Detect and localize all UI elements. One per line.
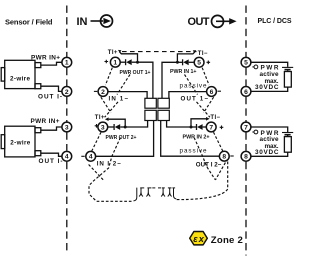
diode D2 (PWR OUT 2+) <box>108 124 126 130</box>
polarity - at pin 6 <box>218 90 221 92</box>
TI- test arrow (ch2 right) <box>191 117 210 127</box>
svg-text:4: 4 <box>89 154 93 161</box>
wire pin2 to transformer <box>108 92 147 99</box>
terminal 3 (field side) <box>62 122 72 132</box>
TI+ test arrow (ch1) <box>118 50 138 62</box>
device outline dashed diagonals (left) <box>89 68 132 202</box>
svg-text:2-wire: 2-wire <box>10 75 30 82</box>
terminal 5 (PLC side) <box>241 57 251 67</box>
pin 3 (device) <box>98 122 108 132</box>
polarity - at pin 8 <box>230 155 233 157</box>
svg-text:30VDC: 30VDC <box>255 149 279 156</box>
svg-text:5: 5 <box>197 60 201 67</box>
svg-text:2: 2 <box>65 89 69 96</box>
svg-text:2-wire: 2-wire <box>10 140 30 147</box>
PLC power block 1 (terminals 5/6) <box>251 62 293 91</box>
polarity + at pin 5 <box>207 61 211 65</box>
device top outline dashed <box>122 51 197 53</box>
node after D1 <box>136 61 139 64</box>
polarity + at pin 7 <box>220 126 224 130</box>
svg-text:6: 6 <box>210 89 214 96</box>
svg-text:TI−: TI− <box>198 51 208 57</box>
pin 6 (device) <box>207 87 217 97</box>
wire node to transformer (ch1 left) <box>138 62 153 98</box>
device outline dashed diagonals (right) <box>177 68 228 200</box>
svg-text:OUT: OUT <box>188 16 210 28</box>
terminal 4 (field side) <box>62 151 72 161</box>
svg-text:2: 2 <box>101 89 105 96</box>
pin 1 (device) <box>110 57 120 67</box>
pin 2 (device) <box>98 87 108 97</box>
wire transformer to node (ch2 right) <box>167 121 191 128</box>
svg-text:30VDC: 30VDC <box>255 84 279 91</box>
2-wire transmitter box 2 <box>1 126 41 157</box>
svg-text:OUT I 2−: OUT I 2− <box>196 161 222 168</box>
svg-text:Sensor / Field: Sensor / Field <box>5 17 53 26</box>
svg-text:OUT I-: OUT I- <box>39 158 63 165</box>
svg-text:1: 1 <box>113 60 117 67</box>
terminal 6 (PLC side) <box>241 87 251 97</box>
pin 4 (device) <box>86 151 96 161</box>
wire box2 to terminal 3 <box>41 127 62 130</box>
node after D2 <box>124 126 127 129</box>
terminal 8 (PLC side) <box>241 151 251 161</box>
polarity + at pin 3 <box>95 124 99 128</box>
svg-text:IN 1−: IN 1− <box>109 95 129 102</box>
wire box1 to terminal 1 <box>41 62 62 65</box>
pin 7 (device) <box>206 122 216 132</box>
polarity + at pin 1 <box>105 60 109 64</box>
PWR active max 30VDC label 1 <box>252 65 279 91</box>
svg-text:5: 5 <box>244 60 248 67</box>
svg-text:6: 6 <box>244 89 248 96</box>
TI- test arrow (ch1 right) <box>177 50 196 62</box>
svg-text:εx: εx <box>193 234 204 244</box>
wire transformer to pin 6 <box>169 92 207 99</box>
polarity - at pin 4 <box>81 155 84 157</box>
svg-text:PWR IN+: PWR IN+ <box>31 54 60 61</box>
wire pin4 to transformer bottom <box>96 121 154 157</box>
svg-text:3: 3 <box>101 124 105 131</box>
terminal 7 (PLC side) <box>241 122 251 132</box>
output symbol (arrow out of circle) <box>212 15 237 27</box>
DIN rail bus connector <box>134 188 177 201</box>
polarity - at pin 2 <box>94 90 97 92</box>
node before D4 <box>190 126 193 129</box>
node before D3 <box>176 61 179 64</box>
diode D4 (PWR IN 2+) <box>191 124 206 130</box>
svg-text:IN I 2−: IN I 2− <box>97 161 121 168</box>
PLC/DCS boundary dashed line <box>245 6 247 256</box>
svg-text:TI−: TI− <box>210 115 220 121</box>
pin 5 (device) <box>194 57 204 67</box>
Ex hexagon badge <box>190 232 208 245</box>
PLC power block 2 (terminals 7/8) <box>251 127 293 156</box>
sensor/field boundary dashed line <box>66 6 68 253</box>
wire box1 to terminal 2 <box>41 86 62 91</box>
wire transformer to node (ch1 right) <box>162 62 177 98</box>
svg-text:3: 3 <box>65 124 69 131</box>
svg-text:8: 8 <box>244 154 248 161</box>
svg-text:8: 8 <box>222 154 226 161</box>
2-wire transmitter box 1 <box>1 60 41 88</box>
diode D1 (PWR OUT 1+) <box>120 59 137 65</box>
svg-text:PWR IN 1+: PWR IN 1+ <box>170 69 197 75</box>
diode D3 (PWR IN 1+) <box>177 59 194 65</box>
svg-text:PWR OUT 2+: PWR OUT 2+ <box>106 135 138 141</box>
input symbol (arrow into circle) <box>91 15 113 27</box>
svg-text:TI+: TI+ <box>95 115 105 121</box>
svg-text:PWR IN+: PWR IN+ <box>31 118 60 125</box>
wire node to transformer (ch2 left) <box>125 121 147 128</box>
svg-text:1: 1 <box>65 60 69 67</box>
svg-text:OUT 1−: OUT 1− <box>181 96 209 103</box>
terminal 1 (field side) <box>62 57 72 67</box>
svg-text:OUT I-: OUT I- <box>38 94 62 101</box>
svg-text:TI+: TI+ <box>108 50 118 56</box>
terminal 2 (field side) <box>62 87 72 97</box>
wire transformer to pin 8 <box>161 121 220 157</box>
svg-text:7: 7 <box>244 124 248 131</box>
svg-text:PWR OUT 1+: PWR OUT 1+ <box>120 70 152 76</box>
PWR active max 30VDC label 2 <box>252 130 279 156</box>
transformer block <box>145 98 169 120</box>
svg-text:IN: IN <box>77 16 88 28</box>
svg-text:PWR IN 2+: PWR IN 2+ <box>183 134 211 140</box>
wire box2 to terminal 4 <box>41 153 62 156</box>
svg-text:7: 7 <box>209 124 213 131</box>
pin 8 (device) <box>219 151 229 161</box>
svg-text:Zone 2: Zone 2 <box>211 235 243 246</box>
svg-text:4: 4 <box>65 154 69 161</box>
svg-text:passive: passive <box>180 148 207 155</box>
svg-text:PLC / DCS: PLC / DCS <box>258 18 292 25</box>
TI+ test arrow (ch2) <box>105 117 125 127</box>
